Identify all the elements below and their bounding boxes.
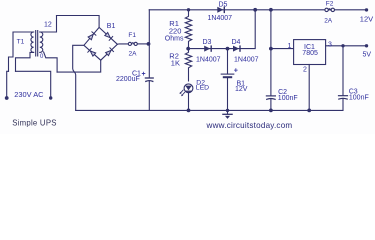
wire C3 vertical — [342, 46, 344, 111]
svg-text:12V: 12V — [360, 15, 373, 24]
capacitor C2 — [266, 96, 275, 99]
svg-text:Simple UPS: Simple UPS — [12, 118, 57, 127]
ground — [223, 110, 232, 119]
diode on top-right edge (points to right corner) — [105, 33, 113, 41]
svg-text:1K: 1K — [171, 59, 180, 68]
svg-text:LED: LED — [196, 84, 209, 91]
wire secondary bottom terminal — [44, 52, 58, 72]
svg-text:+: + — [234, 66, 238, 75]
wire IC pin3 output — [326, 45, 367, 47]
svg-text:1N4007: 1N4007 — [208, 15, 233, 22]
node F1 output junction — [147, 42, 151, 46]
node 12V terminal — [365, 8, 368, 11]
wire battery vertical — [227, 49, 229, 111]
wire D3/D4 row, then up to top rail — [188, 10, 255, 49]
wire IC pin1 from C2 column — [271, 48, 294, 50]
svg-text:5V: 5V — [363, 52, 372, 59]
node R1/R2/D3 junction — [186, 47, 190, 51]
svg-text:T1: T1 — [17, 38, 25, 45]
wire IC pin2 vertical — [308, 65, 310, 111]
wire top-left rail to bridge — [57, 16, 100, 28]
capacitor C3 — [339, 96, 348, 99]
svg-text:1N4007: 1N4007 — [196, 57, 221, 64]
wire 230V left lead — [7, 71, 9, 97]
node 230V right terminal — [49, 96, 52, 99]
node 5V terminal — [365, 44, 368, 47]
svg-text:F2: F2 — [326, 1, 334, 8]
node C2 bottom rail junction — [269, 109, 273, 113]
node R1 top junction — [187, 8, 190, 11]
wire primary bottom terminal — [16, 52, 34, 71]
diode D5 — [217, 7, 225, 14]
capacitor C1 — [145, 78, 153, 81]
node D4 anode / battery junction — [226, 47, 230, 51]
node C3 top junction — [341, 44, 344, 47]
fuse F1 — [117, 42, 148, 45]
node D4 wire / top rail junction — [253, 8, 257, 12]
node C2 top rail junction — [269, 8, 273, 12]
svg-text:12V: 12V — [235, 86, 248, 93]
resistor R2 — [185, 49, 191, 81]
svg-text:100nF: 100nF — [349, 94, 369, 101]
wire bridge left corner to ground rail (with hop) — [73, 45, 84, 110]
wire bottom ground rail — [76, 109, 343, 111]
svg-text:3: 3 — [328, 42, 332, 49]
svg-text:2: 2 — [303, 66, 307, 73]
bridge rectifier B1 — [84, 27, 118, 60]
diode on bottom-left edge (points to left corner) — [88, 48, 96, 56]
svg-text:220: 220 — [169, 26, 182, 35]
svg-text:1: 1 — [288, 43, 292, 50]
svg-text:F1: F1 — [128, 32, 136, 39]
wire 0-line to bridge bottom — [57, 60, 101, 72]
svg-text:2A: 2A — [129, 51, 138, 58]
svg-text:www.circuitstoday.com: www.circuitstoday.com — [206, 121, 293, 130]
diode D4 — [233, 45, 241, 51]
wire C2 vertical — [270, 10, 272, 111]
svg-text:D5: D5 — [219, 1, 228, 8]
svg-text:230V AC: 230V AC — [14, 90, 44, 99]
svg-text:D4: D4 — [232, 39, 241, 46]
node battery bottom rail junction — [226, 109, 229, 112]
node pin1 / C2 column junction — [269, 47, 273, 51]
svg-text:12: 12 — [44, 22, 52, 29]
IC1 7805 regulator box — [294, 40, 326, 65]
diode D3 — [204, 45, 212, 51]
svg-text:1N4007: 1N4007 — [234, 57, 259, 64]
node pin2 rail junction — [307, 109, 311, 113]
svg-text:Ohms: Ohms — [165, 36, 184, 43]
battery B1 — [221, 74, 234, 77]
wire secondary top terminal — [40, 16, 57, 33]
primary coil (left, bumps left) — [31, 32, 34, 52]
svg-text:0: 0 — [40, 54, 44, 60]
wire C1 rail vertical — [148, 10, 150, 111]
svg-text:D3: D3 — [203, 39, 212, 46]
node 230V left terminal — [5, 96, 9, 100]
svg-text:2200uF: 2200uF — [116, 76, 140, 83]
diode on bottom-right edge (points to right corner) — [106, 48, 114, 56]
transformer T1 — [31, 31, 43, 57]
svg-text:B1: B1 — [107, 23, 116, 30]
svg-text:2A: 2A — [324, 18, 333, 25]
LED D2 — [180, 84, 193, 111]
svg-text:100nF: 100nF — [278, 95, 298, 102]
wire 230V right lead — [16, 71, 51, 97]
core lines — [36, 31, 38, 57]
resistor R1 — [185, 10, 191, 49]
svg-text:7805: 7805 — [302, 50, 318, 57]
diode on top-left edge (points to top corner) — [88, 32, 96, 40]
fuse F2 — [325, 8, 335, 11]
svg-text:+: + — [142, 71, 146, 78]
wire top rail — [149, 9, 366, 11]
secondary coil (right, bumps right) — [40, 32, 43, 52]
wire primary top terminal — [9, 32, 34, 71]
node LED-rail junction — [187, 109, 191, 113]
